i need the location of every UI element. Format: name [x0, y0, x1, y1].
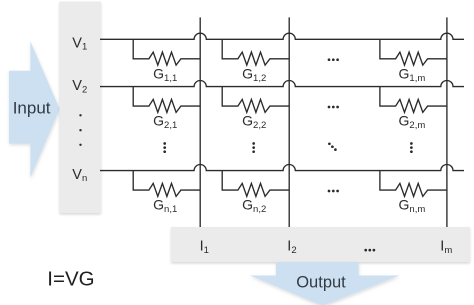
ellipsis output bar [364, 249, 375, 252]
svg-text:Input: Input [13, 99, 51, 118]
vertical ellipsis column m [410, 142, 413, 153]
vertical ellipsis column 1 [163, 142, 166, 153]
vertical ellipsis column 2 [252, 142, 255, 153]
output bus bar [171, 227, 470, 262]
svg-text:I=VG: I=VG [47, 267, 94, 290]
wire row 1 (V1) with crossover hops [100, 33, 464, 39]
svg-text:G2,2: G2,2 [242, 113, 266, 132]
wire column m (Im) [446, 17, 448, 227]
svg-text:Gn,m: Gn,m [399, 197, 426, 216]
resistor G2,2 [222, 87, 289, 113]
svg-text:G1,2: G1,2 [242, 65, 266, 84]
svg-text:G1,1: G1,1 [153, 65, 177, 84]
input arrow [9, 41, 60, 178]
wire column 2 (I2) [288, 17, 290, 227]
svg-text:G2,1: G2,1 [153, 113, 177, 132]
input bus bar [60, 2, 102, 214]
wire column 1 (I1) [199, 17, 201, 227]
ellipsis row 1 [328, 58, 339, 61]
resistor Gn,m [380, 171, 447, 197]
svg-text:Gn,2: Gn,2 [242, 197, 266, 216]
resistor G1,1 [133, 39, 200, 65]
wire row n (Vn) with crossover hops [100, 165, 464, 171]
resistor Gn,2 [222, 171, 289, 197]
resistor Gn,1 [133, 171, 200, 197]
diagonal ellipsis [328, 142, 337, 151]
svg-text:Output: Output [296, 273, 346, 291]
resistor G2,m [380, 87, 447, 113]
resistor G1,m [380, 39, 447, 65]
svg-text:Gn,1: Gn,1 [153, 197, 177, 216]
ellipsis input bar [79, 114, 81, 146]
ellipsis row 2 [328, 106, 339, 109]
resistor G2,1 [133, 87, 200, 113]
resistor G1,2 [222, 39, 289, 65]
wire row 2 (V2) with crossover hops [100, 80, 464, 86]
svg-text:G1,m: G1,m [399, 65, 426, 84]
ellipsis row n [328, 190, 339, 193]
svg-text:G2,m: G2,m [399, 113, 426, 132]
output arrow [250, 262, 400, 305]
